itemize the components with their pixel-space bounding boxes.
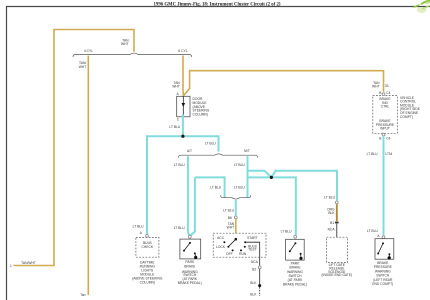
contact BULB TEST: [244, 246, 246, 248]
wire org blk: [336, 204, 338, 221]
svg-text:WHT: WHT: [372, 85, 380, 89]
svg-text:INPUT: INPUT: [380, 127, 390, 131]
wire lt blu from door module pin C to junction: [182, 115, 184, 137]
wire tan from connector 1 up and over to 4/6-cyl split: [14, 30, 135, 266]
svg-text:ACC: ACC: [217, 236, 225, 240]
svg-text:LT BLU: LT BLU: [367, 229, 378, 233]
ignition switch lever: [229, 239, 236, 246]
svg-text:RUN: RUN: [239, 252, 247, 256]
svg-text:LT BLU: LT BLU: [174, 226, 185, 230]
bulb check (daytime running lights module): [132, 225, 163, 285]
svg-text:33: 33: [385, 84, 389, 88]
svg-text:LT BLU: LT BLU: [234, 163, 245, 167]
svg-text:LT BLU: LT BLU: [205, 142, 216, 146]
contact START: [244, 241, 246, 243]
wire blk from ignition switch to ground splice: [259, 257, 261, 285]
connector B6: [234, 216, 237, 219]
svg-text:1734: 1734: [385, 152, 393, 156]
wire lt blu bridge to ignition switch merge: [195, 177, 225, 197]
svg-text:LT BLU: LT BLU: [234, 186, 245, 190]
wire 6-cyl tan leg to door module pin A: [182, 56, 184, 96]
brake pressure warning switch (left rear eng compt): [367, 229, 394, 286]
svg-text:WHT: WHT: [121, 42, 129, 46]
wire lt blu junction to A/T-M/T split: [183, 136, 219, 151]
svg-text:B2: B2: [252, 267, 256, 271]
wire blk to solenoid: [336, 224, 338, 238]
connector B2: [258, 266, 261, 269]
wire lt blu down to park brake switch (second lead): [190, 177, 195, 235]
split A/T-M/T: [179, 154, 258, 158]
lift gate release solenoid: [321, 196, 352, 278]
wire lt blu branch to M/T park brake warning switch: [248, 177, 296, 235]
wire lt blu from VCM brake pressure input down to brake pressure warning switch: [383, 136, 385, 235]
park brake warning switch A/T (at park brake pedal): [174, 226, 202, 285]
contact RUN: [240, 249, 242, 251]
contact ACC: [223, 241, 225, 243]
svg-text:Tan: Tan: [80, 293, 85, 297]
svg-text:LT BLU: LT BLU: [367, 152, 378, 156]
svg-text:C4: C4: [386, 136, 390, 140]
wire tan wht from B6 to ignition switch: [235, 219, 237, 239]
svg-text:LOCK: LOCK: [216, 245, 226, 249]
logo smudge top right: [414, 0, 430, 13]
wire from start/bulb test contact to ground: [245, 242, 260, 257]
svg-text:M/T: M/T: [244, 149, 250, 153]
junction of lift gate branch: [270, 176, 273, 179]
svg-text:COLUMN): COLUMN): [140, 281, 155, 285]
split 4CYL/6CYL: [73, 53, 192, 57]
svg-text:BLK: BLK: [328, 211, 335, 215]
svg-text:CTRL: CTRL: [381, 105, 390, 109]
svg-text:WHT: WHT: [227, 226, 235, 230]
svg-text:COMPT): COMPT): [400, 115, 413, 119]
ignition switch pin: [235, 238, 238, 241]
svg-text:START: START: [247, 236, 258, 240]
svg-text:LT BLU: LT BLU: [281, 230, 292, 234]
svg-text:LT BLU: LT BLU: [174, 163, 185, 167]
svg-text:OFF: OFF: [226, 252, 233, 256]
svg-text:LT BLU: LT BLU: [324, 196, 335, 200]
svg-text:LT BLU: LT BLU: [210, 186, 221, 190]
svg-text:BRAKE PEDAL): BRAKE PEDAL): [178, 281, 202, 285]
svg-text:WHT: WHT: [172, 85, 180, 89]
svg-text:TEST: TEST: [248, 248, 256, 252]
svg-text:4 CYL: 4 CYL: [84, 49, 93, 53]
svg-text:BLK: BLK: [250, 281, 257, 285]
inline connector B1: [335, 222, 339, 224]
svg-text:LT BLU: LT BLU: [133, 225, 144, 229]
svg-text:BLK: BLK: [250, 292, 257, 296]
svg-text:A/T: A/T: [187, 149, 192, 153]
junction at door module output: [181, 135, 184, 138]
svg-text:COLUMN): COLUMN): [193, 112, 208, 116]
svg-text:LT BLU: LT BLU: [223, 208, 234, 212]
svg-text:C4: C4: [386, 91, 390, 95]
ignition switch (dashed box): [213, 233, 266, 257]
wire tan from pin A to vehicle control module: [184, 71, 384, 96]
vehicle control module (dashed box, right side of engine compt): [373, 91, 421, 141]
pin B C4 bottom: [382, 133, 385, 136]
wire lt blu M/T leg: [247, 156, 249, 197]
svg-text:1: 1: [10, 264, 12, 268]
svg-text:NCA: NCA: [328, 228, 336, 232]
wire 4-cyl tan leg: [87, 56, 89, 296]
svg-text:NCA: NCA: [251, 260, 259, 264]
merge bracket to ignition switch: [221, 195, 251, 199]
svg-text:BRAKE: BRAKE: [184, 264, 196, 268]
svg-text:BRAKE PEDAL): BRAKE PEDAL): [283, 282, 307, 286]
door module U1 (above steering column): [177, 92, 210, 121]
splice: [258, 284, 261, 287]
svg-text:(INSIDE END GATE): (INSIDE END GATE): [321, 273, 352, 277]
wire blk below splice: [259, 287, 261, 296]
svg-text:TAN/WHT: TAN/WHT: [21, 261, 36, 265]
svg-text:B6: B6: [228, 216, 232, 220]
park brake warning switch M/T (at park brake pedal): [281, 230, 307, 287]
wire lt blu branch to lift gate release solenoid: [248, 171, 338, 201]
wire lt blu junction to bulb check (daytime running lights module): [147, 136, 183, 234]
contact LOCK: [227, 246, 229, 248]
contact OFF: [232, 249, 234, 251]
wire lt blu A/T leg down to park brake warning switch: [188, 156, 190, 235]
svg-text:B1: B1: [330, 221, 334, 225]
svg-text:END COMPT): END COMPT): [372, 282, 393, 286]
svg-text:CHECK: CHECK: [142, 245, 154, 249]
svg-text:6 CYL: 6 CYL: [178, 49, 187, 53]
svg-text:LT BLU: LT BLU: [169, 125, 180, 129]
svg-text:WHT: WHT: [79, 65, 87, 69]
wire lt blu from merge to connector B6: [235, 200, 237, 216]
